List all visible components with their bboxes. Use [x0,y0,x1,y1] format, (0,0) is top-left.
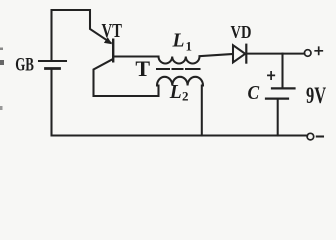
svg-text:1: 1 [186,39,193,54]
svg-text:VD: VD [231,21,252,42]
svg-text:VT: VT [102,20,123,41]
svg-text:T: T [135,56,150,81]
svg-text:C: C [248,82,260,105]
svg-text:9V: 9V [306,83,326,108]
svg-text:2: 2 [182,89,189,104]
svg-text:L: L [172,31,185,52]
svg-text:L: L [169,82,182,103]
svg-text:GB: GB [15,55,34,75]
